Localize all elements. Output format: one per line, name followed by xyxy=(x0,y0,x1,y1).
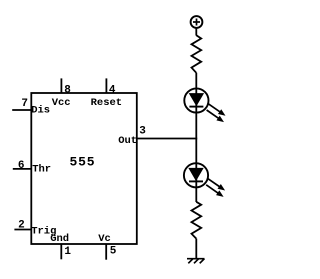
LED D2 emission arrow 1 xyxy=(208,178,220,187)
svg-text:Thr: Thr xyxy=(32,164,51,176)
resistor R2 xyxy=(192,202,202,239)
svg-text:5: 5 xyxy=(110,246,117,258)
LED D1 emission arrow 1 xyxy=(208,104,220,113)
pin 8 Vcc stub xyxy=(60,78,62,93)
wire pin3 Out to LED rail xyxy=(136,138,197,140)
LED D2 xyxy=(184,163,225,197)
svg-text:6: 6 xyxy=(18,160,25,172)
LED D1 xyxy=(184,88,225,122)
svg-text:8: 8 xyxy=(64,84,71,96)
pin 5 Vc stub xyxy=(105,244,107,260)
svg-text:Gnd: Gnd xyxy=(50,233,69,245)
svg-text:Dis: Dis xyxy=(31,105,50,117)
svg-text:Vc: Vc xyxy=(98,233,111,245)
pin 2 Trig stub xyxy=(14,229,31,231)
svg-text:Vcc: Vcc xyxy=(52,97,71,109)
pin 4 Reset stub xyxy=(105,78,107,93)
resistor R1 xyxy=(192,35,202,73)
ground xyxy=(187,259,205,264)
pin 6 Thr stub xyxy=(13,168,32,170)
svg-text:2: 2 xyxy=(18,220,25,232)
svg-text:Out: Out xyxy=(118,135,137,147)
LED D2 emission arrow 2 xyxy=(206,185,218,194)
svg-text:555: 555 xyxy=(70,155,96,170)
wire R1 to LED D1 and through LEDs down to R2 xyxy=(195,73,197,202)
svg-text:3: 3 xyxy=(139,125,146,137)
svg-text:7: 7 xyxy=(21,98,28,110)
pin 7 Dis stub xyxy=(12,109,31,111)
power supply V+ terminal xyxy=(191,16,203,28)
svg-text:Reset: Reset xyxy=(91,97,123,109)
svg-text:4: 4 xyxy=(109,84,116,96)
IC U1 555 body xyxy=(31,93,137,244)
LED D1 emission arrow 2 xyxy=(207,110,219,119)
svg-text:1: 1 xyxy=(64,246,71,258)
pin 1 Gnd stub xyxy=(60,244,62,259)
wire R2 to ground xyxy=(195,239,197,259)
wire V+ to resistor R1 xyxy=(195,28,197,36)
